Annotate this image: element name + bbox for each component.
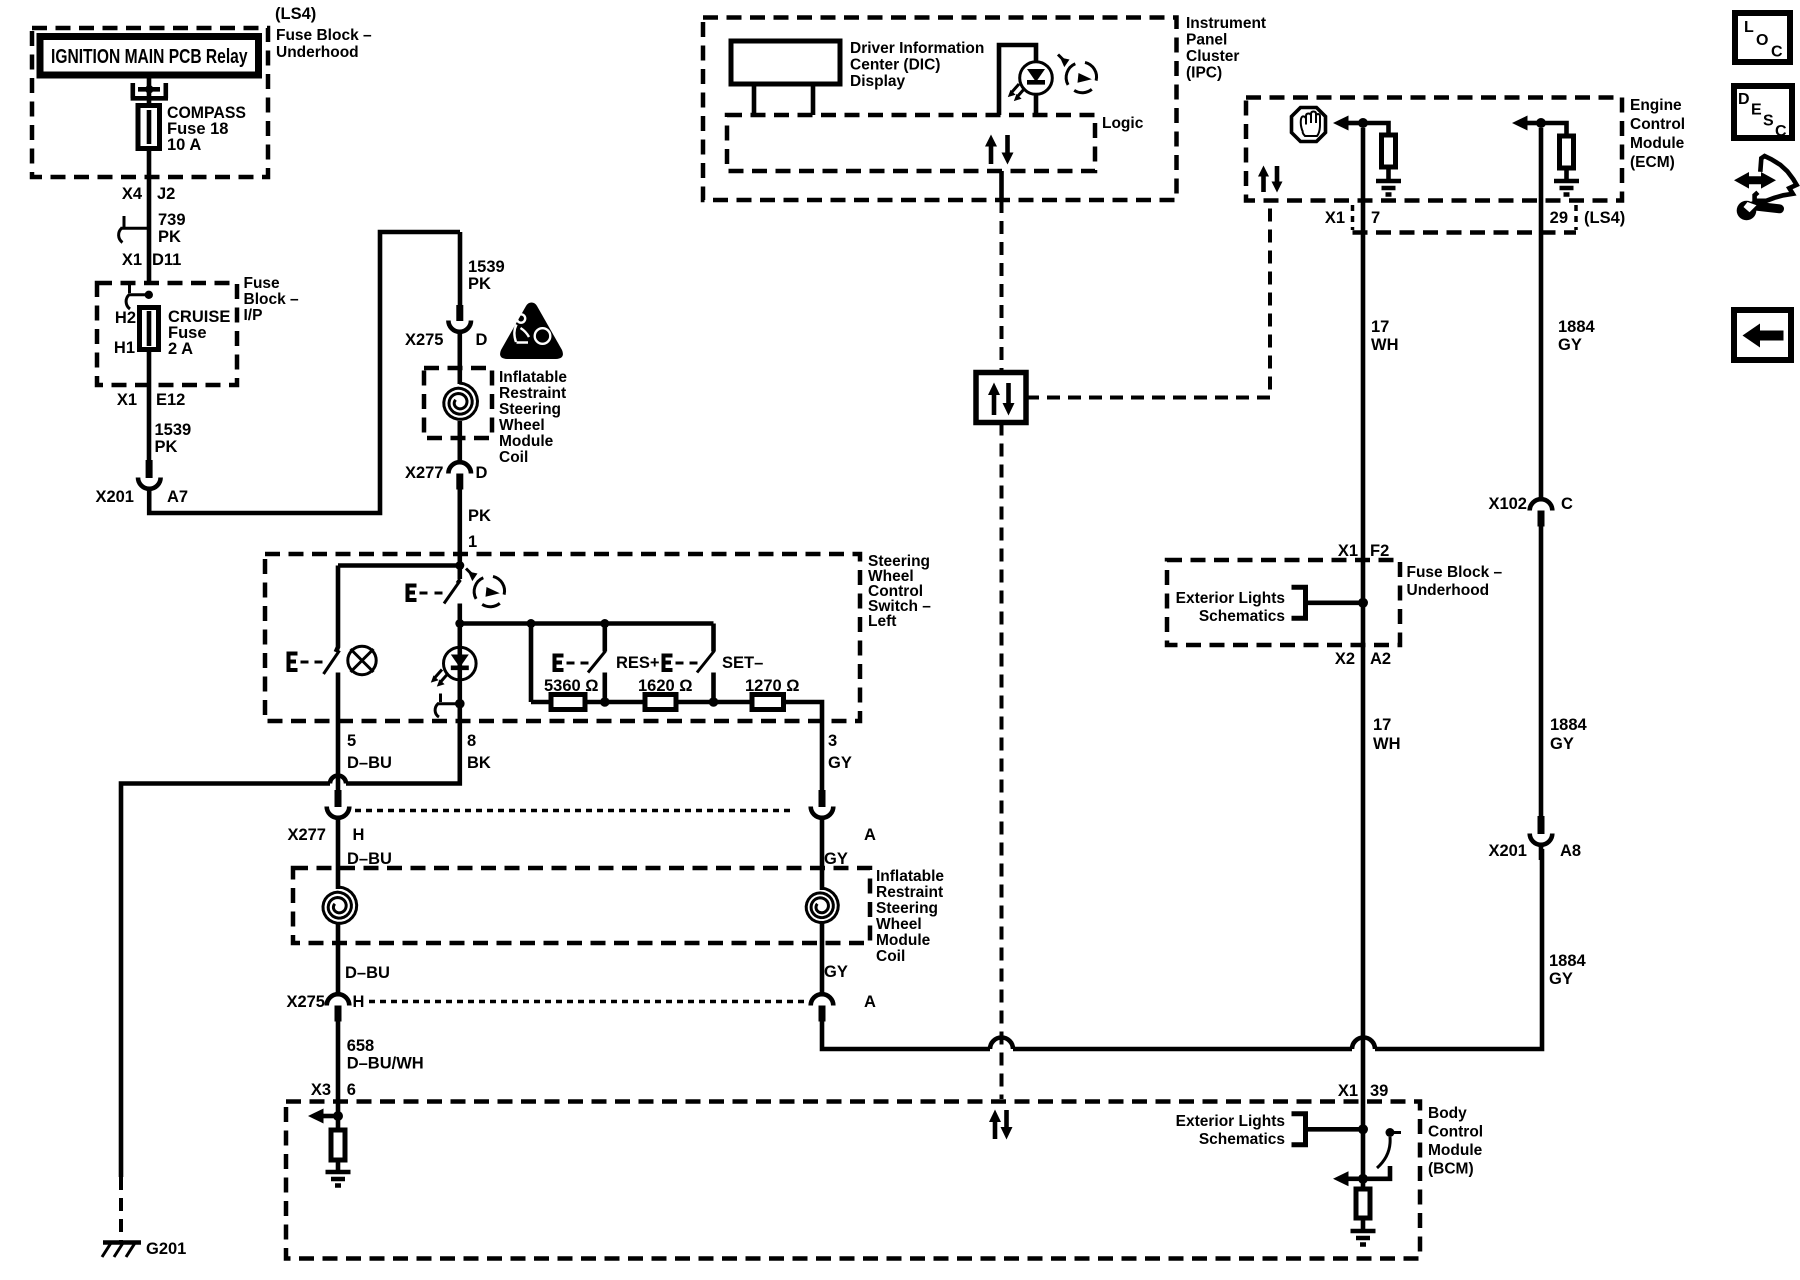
svg-text:1884: 1884 [1550,716,1588,734]
svg-text:Control: Control [1630,116,1685,133]
ground wire 8 BK to G201 [121,721,460,1177]
connector X277 H [335,790,342,807]
connector X201 A7 [146,460,153,478]
svg-text:A2: A2 [1370,650,1391,668]
svg-text:X2: X2 [1335,650,1355,668]
svg-text:S: S [1763,113,1774,130]
svg-text:F2: F2 [1370,542,1389,560]
svg-text:D: D [1738,91,1750,108]
svg-text:J2: J2 [157,185,175,203]
svg-text:SET–: SET– [722,654,763,672]
wire X275 to coil box [457,332,462,384]
fuse block underhood box [32,28,268,177]
svg-text:X1: X1 [122,251,142,269]
resistor 5360 ohm [551,695,585,710]
svg-text:Fuse Block –: Fuse Block – [276,27,372,44]
svg-text:Body: Body [1428,1105,1467,1122]
wire LED to box bottom [457,700,462,721]
svg-text:Coil: Coil [499,449,528,466]
connector X275 D [456,305,463,321]
svg-text:Exterior Lights: Exterior Lights [1176,590,1285,607]
svg-text:GY: GY [824,850,848,868]
wire GY from X275 A to 1884 GY junction [822,849,1542,1049]
svg-text:X275: X275 [286,993,325,1011]
svg-text:Exterior Lights: Exterior Lights [1176,1113,1285,1130]
svg-text:A: A [864,826,876,844]
svg-text:Wheel: Wheel [499,417,545,434]
svg-text:H: H [353,826,365,844]
inline connector clip 739 [123,216,126,227]
wire hop over dashed line [990,1038,1013,1050]
BCM left: X3 6 input, arrow, resistor, ground [336,1106,341,1116]
wire X102 to X201 A8 [1539,527,1544,817]
svg-text:D–BU/WH: D–BU/WH [347,1055,424,1073]
svg-text:5360 Ω: 5360 Ω [544,677,599,695]
ECM arrows up/down [1261,176,1266,192]
wire 5 D-BU down to X277 H [336,721,341,792]
svg-text:5: 5 [347,732,356,750]
svg-text:GY: GY [828,754,852,772]
svg-text:1: 1 [468,533,477,551]
svg-text:Control: Control [1428,1124,1483,1141]
svg-text:Underhood: Underhood [276,44,359,61]
svg-text:I/P: I/P [244,307,263,324]
DIC display rect [731,41,840,84]
svg-text:Cluster: Cluster [1186,48,1239,65]
svg-text:1539: 1539 [468,258,505,276]
wires into coil box [336,818,341,890]
svg-text:Restraint: Restraint [499,385,566,402]
inline connector clip inside I/P box [128,284,131,294]
svg-text:Steering: Steering [499,401,561,418]
svg-text:Steering: Steering [876,900,938,917]
connector X277 D [448,462,471,473]
svg-text:D: D [476,464,488,482]
svg-text:PK: PK [155,438,178,456]
on/off switch with lamp [287,652,298,673]
svg-text:Schematics: Schematics [1199,608,1285,625]
fuse holder clip [131,83,168,98]
wire below top switch to mid junction [457,604,462,648]
svg-text:L: L [1744,19,1754,36]
wire hop over D-BU at 338 [330,776,346,784]
svg-text:658: 658 [347,1037,375,1055]
svg-text:Fuse Block –: Fuse Block – [1407,564,1503,581]
svg-text:BK: BK [467,754,491,772]
stop hand icon [1292,108,1326,142]
top feed line to RES/SET switches [460,621,714,626]
connector X277 A [819,790,826,807]
connector X201 A8 [1538,816,1545,834]
LED indicator [444,647,477,680]
svg-text:10 A: 10 A [167,136,201,154]
svg-text:D–BU: D–BU [345,964,390,982]
dashed signal line data box to BCM [1000,423,1004,1100]
connector X102 C [1530,499,1553,510]
BCM switch [1386,1128,1395,1137]
svg-text:PK: PK [468,507,491,525]
svg-text:7: 7 [1371,209,1380,227]
svg-text:Panel: Panel [1186,32,1227,49]
switch SET- [711,624,716,652]
wire A7 loop to upper column [149,232,460,513]
svg-text:Module: Module [499,433,554,450]
ground G201 [119,1177,123,1242]
svg-text:(IPC): (IPC) [1186,65,1222,82]
svg-text:D: D [476,331,488,349]
icon LOC box [1735,13,1790,62]
svg-text:Instrument: Instrument [1186,15,1266,32]
lamp circle-X [348,646,376,674]
svg-text:D11: D11 [152,251,181,269]
fuse COMPASS Fuse 18 10A [138,106,160,149]
wire 658 D-BU/WH down to X3 6 [336,1022,341,1107]
wire X201 A8 down [1539,845,1544,860]
svg-text:Schematics: Schematics [1199,1131,1285,1148]
icon DESC box [1734,86,1792,138]
svg-text:17: 17 [1371,318,1389,336]
switch RES+ [602,624,607,652]
svg-text:A: A [864,993,876,1011]
wire 17 WH from ECM down [1361,128,1366,1129]
wire relay to fuse [147,75,152,106]
logic dashed box [727,115,1095,171]
svg-text:1620 Ω: 1620 Ω [638,677,693,695]
BCM dashed box [286,1102,1420,1259]
wire 1884 GY from ECM down to X102 [1539,128,1544,501]
svg-text:A7: A7 [167,488,188,506]
svg-text:C: C [1771,44,1783,61]
connector line X275 [369,1000,805,1004]
svg-text:E12: E12 [156,391,185,409]
ECM dashed box [1246,98,1622,201]
resistor 1620 ohm [645,695,676,710]
svg-text:Restraint: Restraint [876,884,943,901]
svg-text:Underhood: Underhood [1407,582,1490,599]
wire LED loop [999,45,1036,115]
coil spiral top [444,383,478,419]
svg-text:X1: X1 [1338,1082,1358,1100]
warning triangle airbag [500,303,563,360]
wire X277 to switch box [457,489,462,554]
switch cruise master (top) [457,579,460,583]
BCM arrows up/down at serial data entry [993,1121,998,1139]
svg-text:X201: X201 [1488,842,1527,860]
svg-text:8: 8 [467,732,476,750]
wire fuse to X201 A7 [147,349,152,462]
resistor chain bottom line [529,624,534,703]
svg-text:3: 3 [828,732,837,750]
svg-text:(ECM): (ECM) [1630,154,1675,171]
svg-text:H1: H1 [114,339,135,357]
svg-text:X201: X201 [95,488,134,506]
svg-text:X277: X277 [287,826,326,844]
cruise speedo icon IPC [1066,62,1096,92]
svg-text:Module: Module [876,932,931,949]
svg-text:C: C [1775,123,1787,140]
svg-text:Center (DIC): Center (DIC) [850,57,940,74]
svg-text:D–BU: D–BU [347,754,392,772]
svg-text:GY: GY [1549,970,1573,988]
clip connector below LED [439,694,442,703]
coil dashed box top [424,368,492,438]
svg-text:1884: 1884 [1558,318,1596,336]
svg-text:Driver Information: Driver Information [850,40,984,57]
svg-text:Display: Display [850,73,906,90]
svg-text:Coil: Coil [876,948,905,965]
dashed signal line IPC to data box [1000,200,1004,372]
svg-text:PK: PK [158,228,181,246]
svg-text:(LS4): (LS4) [1584,209,1625,227]
svg-text:O: O [1756,32,1768,49]
svg-text:39: 39 [1370,1082,1388,1100]
svg-text:1539: 1539 [155,421,192,439]
wire into box and branch node [457,554,462,579]
arrows up/down inside data box [992,395,997,415]
svg-text:739: 739 [158,211,186,229]
coil dashed box bottom [293,868,870,943]
svg-text:1270 Ω: 1270 Ω [745,677,800,695]
svg-text:(BCM): (BCM) [1428,1161,1474,1178]
svg-text:WH: WH [1371,336,1399,354]
icon back arrow box [1734,310,1791,360]
wire down to X275 D [458,232,463,307]
svg-text:Module: Module [1630,135,1685,152]
svg-text:X1: X1 [1338,542,1358,560]
wires below coil box [336,922,341,994]
svg-text:Left: Left [868,613,896,630]
svg-text:Module: Module [1428,1142,1483,1159]
wire fuse down through X4 J2 [147,148,152,283]
svg-text:X4: X4 [122,185,143,203]
svg-text:WH: WH [1373,735,1401,753]
svg-text:RES+: RES+ [616,654,660,672]
fuse block underhood right box [1167,560,1400,645]
coil spiral right [806,888,838,923]
resistor 1270 ohm [752,695,784,710]
svg-text:2 A: 2 A [168,340,193,358]
svg-text:Fuse: Fuse [244,275,281,292]
dashed signal line data box to ECM [1026,203,1270,398]
arrows up/down inside logic box [989,146,994,164]
svg-text:X277: X277 [405,464,444,482]
svg-text:(LS4): (LS4) [275,5,316,23]
svg-text:PK: PK [468,275,491,293]
cruise speedo icon (top switch) [474,576,504,606]
svg-text:Logic: Logic [1102,115,1144,132]
connector line X277 [355,809,794,813]
wire left branch down to on/off switch [336,566,338,653]
IPC dashed box [703,18,1177,201]
relay IGNITION MAIN PCB Relay [40,37,259,76]
coil spiral left [323,887,357,923]
wire 3 GY down to X277 A [820,721,825,792]
svg-text:29: 29 [1550,209,1568,227]
svg-text:1884: 1884 [1549,952,1587,970]
serial data box [976,373,1026,423]
svg-text:A8: A8 [1560,842,1581,860]
ECM pin 29: arrow, node, resistor, ground [1512,116,1528,131]
svg-text:D–BU: D–BU [347,850,392,868]
fuse block I/P box [97,283,237,385]
svg-text:Inflatable: Inflatable [499,369,567,386]
svg-text:X275: X275 [405,331,444,349]
svg-text:Wheel: Wheel [876,916,922,933]
svg-text:H: H [353,993,365,1011]
svg-text:Engine: Engine [1630,97,1682,114]
svg-text:GY: GY [824,963,848,981]
icon double arrow with wrench [1734,172,1776,189]
svg-text:17: 17 [1373,716,1391,734]
connector X275 A [811,994,834,1005]
connector X275 H [327,994,350,1005]
svg-text:H2: H2 [115,309,136,327]
BCM arrow and resistor to ground [1333,1171,1349,1186]
svg-text:E: E [1751,102,1762,119]
svg-text:X1: X1 [1325,209,1345,227]
steering wheel control switch box [265,554,860,721]
wire logic to IPC border [999,171,1004,200]
svg-text:IGNITION MAIN PCB Relay: IGNITION MAIN PCB Relay [51,46,248,68]
DIC legs [754,84,813,115]
svg-text:Block –: Block – [244,291,300,308]
wire hop over 17 WH wire [1352,1038,1375,1050]
fuse CRUISE Fuse 2A [140,308,159,350]
ECM pin 7: arrow, node, resistor, ground [1333,116,1349,131]
svg-text:G201: G201 [146,1240,186,1258]
svg-text:GY: GY [1558,336,1582,354]
svg-text:X1: X1 [117,391,137,409]
svg-text:C: C [1561,495,1573,513]
LED indicator IPC [1020,62,1053,95]
wire coil to X277 D [457,421,462,463]
ECM connector sub-box [1351,205,1355,230]
svg-text:X3: X3 [311,1081,331,1099]
svg-text:GY: GY [1550,735,1574,753]
svg-text:Inflatable: Inflatable [876,868,944,885]
svg-text:6: 6 [347,1081,356,1099]
svg-text:X102: X102 [1488,495,1527,513]
